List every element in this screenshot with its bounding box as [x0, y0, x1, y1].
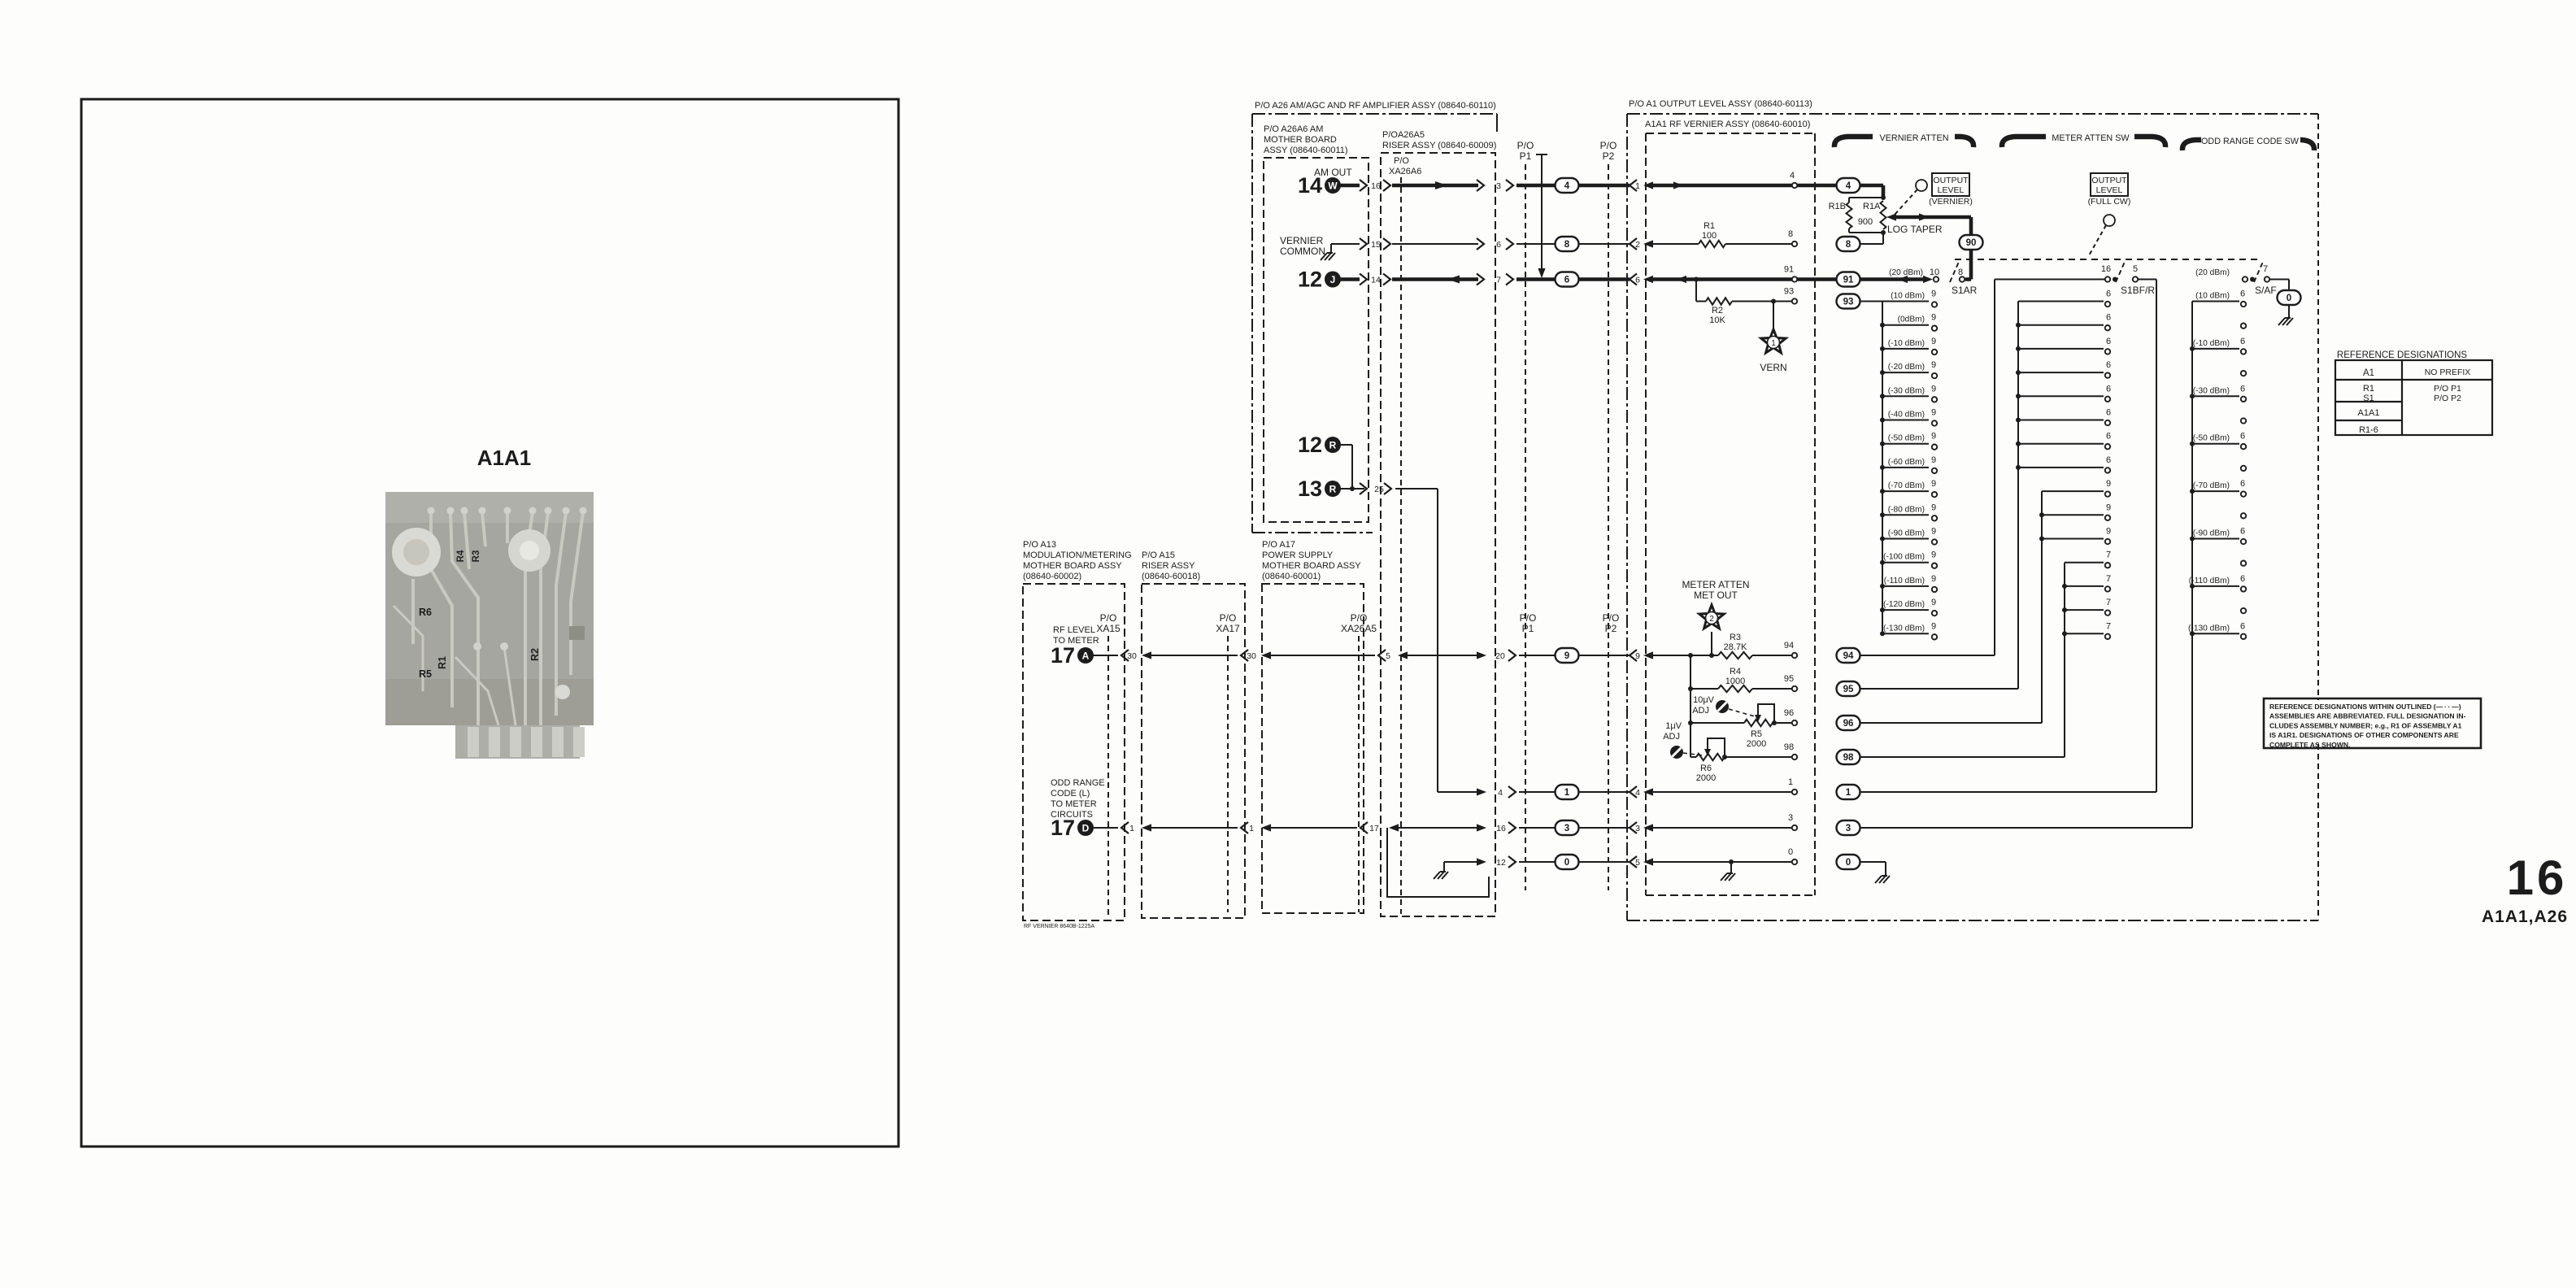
svg-text:P/O: P/O	[1520, 612, 1537, 624]
svg-text:(08640-60001): (08640-60001)	[1262, 572, 1321, 581]
svg-text:(-40 dBm): (-40 dBm)	[1888, 411, 1925, 420]
R1A wiper thick wire to oval 90	[1886, 213, 1896, 220]
svg-text:LEVEL: LEVEL	[1938, 185, 1965, 195]
S1BF/R contact row 4	[2018, 395, 2104, 397]
oval 8 (A1)	[1837, 237, 1860, 251]
svg-text:9: 9	[1931, 384, 1936, 394]
svg-text:1μV: 1μV	[1665, 721, 1682, 731]
svg-text:7: 7	[2106, 598, 2111, 607]
svg-text:D: D	[1082, 823, 1090, 834]
svg-text:900: 900	[1858, 217, 1873, 227]
svg-text:95: 95	[1843, 685, 1854, 694]
routing stub near riser bottom	[1387, 828, 1489, 897]
ground drop inside A1A1	[1730, 862, 1732, 873]
svg-text:(08640-60018): (08640-60018)	[1142, 572, 1200, 581]
svg-text:6: 6	[2240, 479, 2245, 489]
svg-text:93: 93	[1784, 287, 1794, 297]
svg-text:P/O: P/O	[1600, 140, 1617, 151]
wire to R1A top	[1653, 184, 1883, 188]
svg-text:91: 91	[1784, 265, 1794, 275]
svg-text:A1A1 RF VERNIER ASSY (08640-60: A1A1 RF VERNIER ASSY (08640-60010)	[1645, 120, 1810, 129]
S1AR contact (-100 dBm)	[1882, 562, 1929, 563]
svg-text:VERNIER: VERNIER	[1280, 235, 1324, 246]
svg-text:3: 3	[1635, 824, 1640, 833]
S1BF/R contact row 3	[2018, 372, 2104, 373]
svg-text:RF VERNIER 8640B-1225A: RF VERNIER 8640B-1225A	[1024, 924, 1094, 929]
svg-text:4: 4	[1790, 171, 1795, 181]
R6 row pot	[1690, 756, 1696, 758]
svg-text:7: 7	[2106, 621, 2111, 631]
wire 25 down to odd range row	[1395, 488, 1438, 490]
wire row 2 with R1	[1653, 243, 1699, 245]
bracket METER ATTEN SW	[2002, 137, 2046, 147]
svg-text:9: 9	[1931, 289, 1936, 299]
svg-text:2: 2	[1709, 615, 1714, 624]
svg-text:1: 1	[1788, 777, 1793, 787]
svg-text:RISER ASSY: RISER ASSY	[1142, 561, 1195, 571]
S1AR contact (-20 dBm)	[1882, 372, 1929, 373]
svg-text:1: 1	[1249, 824, 1254, 833]
svg-text:4: 4	[1564, 181, 1570, 191]
S/AF unused contact	[2241, 324, 2246, 329]
S1AR contact (-110 dBm)	[1882, 585, 1929, 587]
svg-text:9: 9	[1931, 621, 1936, 631]
svg-text:MODULATION/METERING: MODULATION/METERING	[1023, 550, 1132, 560]
oval 96	[1837, 716, 1860, 730]
S1AR contact (-10 dBm)	[1882, 348, 1929, 350]
svg-text:ADJ: ADJ	[1692, 706, 1709, 716]
svg-text:VERNIER ATTEN: VERNIER ATTEN	[1880, 133, 1949, 143]
oval 3 (A1)	[1837, 820, 1860, 835]
svg-text:4: 4	[1846, 181, 1851, 191]
svg-text:6: 6	[2106, 313, 2111, 323]
svg-text:1: 1	[1564, 788, 1570, 798]
svg-text:9: 9	[1931, 313, 1936, 323]
svg-text:(20 dBm): (20 dBm)	[1889, 268, 1923, 277]
A1A1 PCB photograph	[385, 492, 594, 759]
S/AF unused contact	[2241, 371, 2246, 376]
svg-text:(-50 dBm): (-50 dBm)	[1888, 434, 1925, 443]
svg-text:(20 dBm): (20 dBm)	[2195, 268, 2230, 277]
svg-text:7: 7	[2106, 550, 2111, 560]
S/AF contact (-130 dBm)	[2192, 633, 2239, 634]
svg-text:P/O: P/O	[1517, 140, 1534, 151]
svg-text:98: 98	[1784, 742, 1794, 752]
svg-text:R1-6: R1-6	[2359, 425, 2378, 435]
svg-text:(0dBm): (0dBm)	[1898, 315, 1925, 324]
svg-text:17: 17	[1051, 816, 1075, 840]
R4 row	[1690, 655, 1691, 757]
svg-text:95: 95	[1784, 674, 1794, 684]
wire 98 feed bus (7 contacts)	[1860, 756, 2065, 758]
svg-text:30: 30	[1247, 651, 1256, 661]
svg-text:0: 0	[1564, 858, 1569, 868]
S/AF contact (10 dBm)	[2192, 301, 2239, 302]
ground into pin 12	[1443, 862, 1445, 872]
P1 direction arrow	[1536, 154, 1547, 155]
svg-text:(10 dBm): (10 dBm)	[1891, 292, 1925, 301]
oval 6 (P1)	[1556, 272, 1579, 287]
oval 90	[1960, 235, 1983, 250]
svg-text:(-20 dBm): (-20 dBm)	[1888, 363, 1925, 372]
svg-text:6: 6	[2106, 337, 2111, 346]
svg-text:9: 9	[1931, 337, 1936, 346]
svg-text:A1A1: A1A1	[2358, 408, 2380, 418]
svg-text:RISER ASSY (08640-60009): RISER ASSY (08640-60009)	[1382, 141, 1496, 150]
svg-text:3: 3	[1846, 824, 1851, 833]
svg-text:6: 6	[1635, 276, 1640, 285]
svg-text:A1: A1	[2363, 368, 2374, 378]
svg-text:6: 6	[1564, 276, 1569, 285]
svg-text:6: 6	[2240, 432, 2245, 442]
svg-text:25: 25	[1374, 485, 1384, 494]
svg-text:6: 6	[2240, 621, 2245, 631]
svg-text:(-30 dBm): (-30 dBm)	[2193, 386, 2230, 395]
svg-text:6: 6	[2240, 384, 2245, 394]
svg-text:R: R	[1329, 440, 1337, 451]
svg-text:9: 9	[2106, 503, 2111, 512]
S1BF/R contact row 14	[2065, 633, 2104, 634]
svg-text:J: J	[1330, 274, 1336, 285]
svg-text:(FULL CW): (FULL CW)	[2088, 197, 2131, 207]
svg-text:5: 5	[2133, 264, 2138, 274]
oval 9 (P1)	[1556, 648, 1579, 663]
oval 0 at S/AF	[2278, 290, 2301, 305]
svg-text:P/O A13: P/O A13	[1023, 540, 1056, 550]
svg-text:COMMON: COMMON	[1280, 246, 1325, 257]
S1AR contact (-80 dBm)	[1882, 514, 1929, 516]
S1BF/R contact row 8	[2042, 490, 2104, 492]
svg-text:96: 96	[1784, 708, 1794, 718]
svg-text:0: 0	[1846, 858, 1851, 868]
svg-text:7: 7	[2106, 574, 2111, 584]
svg-text:R4: R4	[1730, 667, 1741, 677]
svg-text:R4: R4	[456, 550, 466, 562]
svg-text:POWER SUPPLY: POWER SUPPLY	[1262, 550, 1334, 560]
resistor R5 2000	[1744, 720, 1773, 726]
svg-text:W: W	[1328, 181, 1338, 192]
svg-text:ADJ: ADJ	[1663, 732, 1680, 742]
svg-text:S1AR: S1AR	[1952, 285, 1978, 296]
svg-text:9: 9	[2106, 479, 2111, 489]
svg-text:1: 1	[1771, 339, 1776, 348]
svg-text:(-130 dBm): (-130 dBm)	[2188, 624, 2230, 633]
svg-text:(10 dBm): (10 dBm)	[2195, 292, 2230, 301]
S1AR contact (10 dBm)	[1882, 301, 1929, 302]
svg-text:ODD RANGE CODE SW: ODD RANGE CODE SW	[2201, 137, 2300, 146]
svg-text:9: 9	[1635, 651, 1640, 661]
svg-text:16: 16	[1496, 824, 1506, 833]
svg-text:(-130 dBm): (-130 dBm)	[1883, 624, 1925, 633]
svg-text:NO PREFIX: NO PREFIX	[2425, 368, 2471, 377]
svg-text:P/O: P/O	[1100, 612, 1117, 624]
svg-text:R3: R3	[472, 550, 481, 563]
oval 1 (P1)	[1556, 785, 1579, 799]
svg-text:6: 6	[2240, 337, 2245, 346]
svg-text:14: 14	[1298, 173, 1322, 198]
svg-text:6: 6	[2240, 289, 2245, 299]
S/AF contact (-30 dBm)	[2192, 395, 2239, 397]
svg-text:1: 1	[1846, 788, 1851, 798]
svg-text:3: 3	[1564, 824, 1569, 833]
svg-text:S/AF: S/AF	[2255, 285, 2277, 296]
svg-text:8: 8	[1846, 240, 1851, 250]
oval 0 (P1)	[1556, 855, 1579, 869]
svg-text:LEVEL: LEVEL	[2096, 185, 2123, 195]
oval 4 (P1)	[1556, 178, 1579, 193]
notes box	[2264, 698, 2481, 748]
wire to ground after oval 0	[1860, 861, 1886, 863]
S1BF/R contact row 0	[2018, 301, 2104, 302]
svg-text:P/O P2: P/O P2	[2434, 394, 2461, 403]
S1AR contact (-60 dBm)	[1882, 467, 1929, 468]
S/AF unused contact	[2241, 466, 2246, 471]
oval 91	[1837, 272, 1860, 287]
svg-text:9: 9	[1931, 550, 1936, 560]
svg-text:R2: R2	[1712, 306, 1723, 315]
switch coupling dashed line	[1955, 259, 2262, 260]
svg-text:ASSEMBLIES ARE ABBREVIATED. F: ASSEMBLIES ARE ABBREVIATED. FULL DESIGNA…	[2269, 712, 2466, 720]
S1AR contact (-50 dBm)	[1882, 443, 1929, 445]
svg-text:94: 94	[1843, 651, 1854, 661]
S/AF unused contact	[2241, 418, 2246, 423]
svg-text:6: 6	[2240, 574, 2245, 584]
svg-text:(-90 dBm): (-90 dBm)	[1888, 529, 1925, 538]
S/AF unused contact	[2241, 561, 2246, 566]
svg-text:9: 9	[1931, 360, 1936, 370]
svg-text:93: 93	[1843, 298, 1854, 307]
svg-text:(-100 dBm): (-100 dBm)	[1883, 553, 1925, 562]
oval 1 (A1)	[1837, 785, 1860, 799]
S1BF/R contact row 1	[2018, 324, 2104, 326]
page border frame (left page)	[81, 99, 899, 1147]
svg-text:(-110 dBm): (-110 dBm)	[1884, 577, 1925, 585]
S1AR ladder bus	[1882, 302, 1883, 634]
svg-text:90: 90	[1966, 238, 1977, 248]
svg-text:9: 9	[1931, 574, 1936, 584]
svg-text:0: 0	[1788, 847, 1793, 857]
svg-text:12: 12	[1298, 433, 1322, 457]
svg-text:(-10 dBm): (-10 dBm)	[2193, 339, 2230, 348]
S/AF ladder bus fed by wire 3	[2191, 302, 2193, 829]
S1BF/R contact row 2	[2018, 348, 2104, 350]
svg-text:IS A1R1. DESIGNATIONS OF OTH: IS A1R1. DESIGNATIONS OF OTHER COMPONENT…	[2269, 731, 2459, 739]
svg-text:ASSY (08640-60011): ASSY (08640-60011)	[1264, 146, 1348, 155]
svg-text:R: R	[1329, 484, 1337, 495]
wire 96 feed bus (9 contacts)	[1860, 722, 2042, 724]
svg-text:9: 9	[2106, 527, 2111, 537]
svg-text:R1: R1	[437, 656, 448, 669]
svg-text:P/O A26A6 AM: P/O A26A6 AM	[1264, 124, 1323, 134]
svg-text:94: 94	[1784, 641, 1794, 651]
svg-text:P/O: P/O	[1351, 612, 1368, 624]
oval 95	[1837, 681, 1860, 696]
S/AF unused contact	[2241, 608, 2246, 613]
svg-text:6: 6	[2240, 527, 2245, 537]
S/AF contact (-70 dBm)	[2192, 490, 2239, 492]
svg-text:16: 16	[1371, 181, 1381, 191]
svg-text:CODE (L): CODE (L)	[1051, 789, 1090, 798]
svg-text:METER ATTEN SW: METER ATTEN SW	[2052, 133, 2130, 143]
S1BF/R contact row 9	[2042, 514, 2104, 516]
oval 4 (A1)	[1837, 178, 1860, 193]
svg-text:0: 0	[2287, 294, 2291, 303]
ground at vernier common	[1330, 244, 1332, 253]
svg-text:6: 6	[2106, 432, 2111, 442]
svg-text:(-30 dBm): (-30 dBm)	[1888, 386, 1925, 395]
svg-text:1: 1	[1129, 824, 1134, 833]
S1AR contact (-120 dBm)	[1882, 609, 1929, 611]
svg-text:8: 8	[1958, 268, 1963, 277]
S1AR contact (-70 dBm)	[1882, 490, 1929, 492]
wire riser row vernier common	[1392, 243, 1478, 245]
S1AR contact (-40 dBm)	[1882, 420, 1929, 421]
svg-text:8: 8	[1564, 240, 1570, 250]
svg-text:P/O: P/O	[1394, 156, 1409, 166]
S1AR contact (-90 dBm)	[1882, 538, 1929, 540]
svg-text:P/O A26 AM/AGC AND RF AMPLIFIE: P/O A26 AM/AGC AND RF AMPLIFIER ASSY (08…	[1255, 101, 1496, 111]
OUTPUT LEVEL (FULL CW) control	[2091, 173, 2128, 196]
oval 93	[1837, 294, 1860, 309]
svg-text:(08640-60002): (08640-60002)	[1023, 572, 1081, 581]
svg-text:10μV: 10μV	[1693, 695, 1715, 705]
row wire 1	[1438, 791, 1477, 793]
svg-text:P/O A17: P/O A17	[1262, 540, 1295, 550]
svg-text:(-70 dBm): (-70 dBm)	[1888, 481, 1925, 490]
svg-text:(-90 dBm): (-90 dBm)	[2193, 529, 2230, 538]
svg-text:TO METER: TO METER	[1051, 799, 1097, 809]
svg-text:(-80 dBm): (-80 dBm)	[1888, 505, 1925, 514]
svg-text:ODD RANGE: ODD RANGE	[1051, 778, 1105, 788]
svg-text:CLUDES ASSEMBLY NUMBER; e.g.,: CLUDES ASSEMBLY NUMBER; e.g., R1 OF ASSE…	[2269, 721, 2462, 729]
svg-text:R1: R1	[2363, 384, 2374, 394]
wire 95 feed bus (6 contacts)	[1860, 688, 2018, 690]
svg-text:7: 7	[1496, 276, 1501, 285]
svg-text:P/O P1: P/O P1	[2434, 384, 2461, 394]
svg-text:RF LEVEL: RF LEVEL	[1053, 625, 1095, 635]
S1BF/R contact row 11	[2065, 562, 2104, 563]
svg-text:17: 17	[1051, 643, 1075, 668]
contact 4	[1792, 183, 1797, 188]
svg-text:9: 9	[1931, 503, 1936, 512]
oval 8 (P1)	[1556, 237, 1579, 251]
svg-text:7: 7	[2263, 264, 2268, 274]
svg-text:XA17: XA17	[1216, 623, 1240, 634]
S1BF/R arm dash	[2116, 262, 2125, 282]
thick wire 91	[1653, 277, 1927, 281]
svg-text:XA26A6: XA26A6	[1389, 167, 1421, 176]
svg-text:OUTPUT: OUTPUT	[2091, 176, 2127, 185]
svg-text:100: 100	[1702, 231, 1717, 241]
svg-text:A: A	[1082, 651, 1090, 662]
svg-text:P2: P2	[1603, 150, 1615, 162]
svg-text:20: 20	[1495, 651, 1505, 661]
svg-text:MOTHER BOARD: MOTHER BOARD	[1264, 135, 1337, 145]
svg-text:9: 9	[1931, 598, 1936, 607]
svg-text:(-60 dBm): (-60 dBm)	[1888, 458, 1925, 467]
svg-text:A1A1,A26: A1A1,A26	[2482, 907, 2568, 926]
svg-text:10: 10	[1930, 268, 1939, 277]
S1BF/R contact row 5	[2018, 420, 2104, 421]
svg-text:VERN: VERN	[1760, 362, 1786, 373]
svg-text:16: 16	[2101, 264, 2111, 274]
svg-text:8: 8	[1788, 229, 1793, 239]
wire 14W to pin 16	[1340, 184, 1360, 188]
svg-text:2000: 2000	[1696, 773, 1716, 783]
S/AF contact (-10 dBm)	[2192, 348, 2239, 350]
svg-text:R3: R3	[1730, 633, 1741, 642]
svg-text:9: 9	[1931, 432, 1936, 442]
svg-text:1000: 1000	[1725, 677, 1745, 686]
svg-text:R1B: R1B	[1829, 202, 1846, 211]
svg-text:COMPLETE AS SHOWN.: COMPLETE AS SHOWN.	[2269, 741, 2350, 749]
svg-text:R5: R5	[1751, 729, 1762, 739]
svg-text:R6: R6	[419, 607, 432, 618]
arrow into S1AR contact 10	[1923, 276, 1933, 283]
wire to R3	[1653, 655, 1718, 656]
svg-text:A1A1: A1A1	[477, 446, 531, 470]
svg-text:P/O: P/O	[1603, 612, 1620, 624]
svg-text:9: 9	[1931, 455, 1936, 465]
svg-text:12: 12	[1496, 858, 1506, 868]
svg-text:(-10 dBm): (-10 dBm)	[1888, 339, 1925, 348]
wire riser row AM OUT	[1392, 184, 1478, 188]
svg-text:9: 9	[1931, 479, 1936, 489]
svg-text:30: 30	[1127, 651, 1137, 661]
svg-text:5: 5	[1635, 858, 1640, 868]
svg-text:(VERNIER): (VERNIER)	[1929, 197, 1973, 207]
S/AF contact (-90 dBm)	[2192, 538, 2239, 540]
svg-text:2: 2	[1635, 240, 1640, 250]
svg-text:2000: 2000	[1747, 739, 1766, 749]
svg-text:S1BF/R: S1BF/R	[2121, 285, 2155, 296]
svg-text:16: 16	[2507, 851, 2568, 905]
svg-text:S1: S1	[2363, 394, 2374, 403]
svg-text:10K: 10K	[1709, 315, 1725, 325]
S/AF contact (-50 dBm)	[2192, 443, 2239, 445]
S1AR contact (-30 dBm)	[1882, 395, 1929, 397]
svg-text:R2: R2	[529, 648, 541, 661]
oval 98	[1837, 750, 1860, 764]
wire 94 feed	[1860, 655, 1995, 656]
svg-text:XA26A5: XA26A5	[1341, 623, 1377, 634]
S/AF contact (-110 dBm)	[2192, 585, 2239, 587]
svg-text:15: 15	[1371, 240, 1381, 250]
svg-text:3: 3	[1788, 813, 1793, 823]
svg-text:96: 96	[1843, 719, 1854, 729]
svg-text:6: 6	[2106, 360, 2111, 370]
svg-text:MOTHER BOARD ASSY: MOTHER BOARD ASSY	[1262, 561, 1361, 571]
svg-text:9: 9	[1564, 651, 1569, 661]
svg-text:6: 6	[2106, 289, 2111, 299]
wire 1 feed (right bus)	[1860, 791, 2156, 793]
VERN star 1	[1773, 302, 1774, 329]
svg-text:4: 4	[1635, 788, 1640, 798]
S1BF/R contact row 6	[2018, 443, 2104, 445]
oval 0 (A1)	[1837, 855, 1860, 869]
svg-text:P1: P1	[1522, 623, 1534, 634]
svg-text:6: 6	[1496, 240, 1501, 250]
svg-text:17: 17	[1369, 824, 1379, 833]
svg-text:P1: P1	[1520, 150, 1532, 162]
resistor R6 2000	[1696, 754, 1725, 760]
svg-text:5: 5	[1386, 651, 1390, 661]
svg-text:28.7K: 28.7K	[1724, 642, 1747, 652]
svg-text:4: 4	[1498, 788, 1503, 798]
svg-text:9: 9	[1931, 527, 1936, 537]
svg-text:14: 14	[1371, 276, 1381, 285]
svg-text:(-70 dBm): (-70 dBm)	[2193, 481, 2230, 490]
